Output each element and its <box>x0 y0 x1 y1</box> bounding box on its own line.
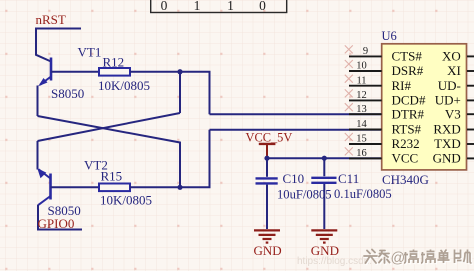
junction node VCC/C10 <box>264 156 269 161</box>
svg-text:1: 1 <box>194 0 201 13</box>
pin 2 XI (right) <box>447 63 474 78</box>
svg-text:13: 13 <box>356 104 367 115</box>
svg-text:U6: U6 <box>382 29 397 43</box>
junction node C11 <box>322 156 327 161</box>
svg-text:DTR#: DTR# <box>392 106 425 121</box>
svg-text:XI: XI <box>447 63 461 78</box>
svg-text:R12: R12 <box>103 55 125 70</box>
pin 15 R232 <box>345 133 420 151</box>
svg-text:GND: GND <box>433 151 461 166</box>
svg-text:10: 10 <box>356 61 367 72</box>
wire R15 output to corner <box>130 130 210 188</box>
pin 10 DSR# <box>345 60 424 78</box>
pin 11 RI# <box>345 75 412 93</box>
wire cross diagonal A (VT1 emitter to R15 node) <box>38 116 181 187</box>
svg-text:0: 0 <box>259 0 266 13</box>
wire VT2 emitter up <box>37 141 39 170</box>
VCC bar <box>259 143 276 145</box>
capacitor C10 <box>256 158 278 229</box>
ground symbol (C10) <box>254 230 280 242</box>
wire VT2 collector down <box>37 205 39 230</box>
wire nRST to VT1 collector <box>36 29 51 62</box>
svg-text:10K/0805: 10K/0805 <box>98 78 150 93</box>
wire GPIO0 stub <box>37 229 82 231</box>
pin 9 CTS# <box>345 45 423 63</box>
VT1 emitter arrowhead <box>38 78 47 86</box>
wire to pin13 DTR# <box>210 113 383 115</box>
pin 1 XO (right) <box>442 49 474 64</box>
pin 12 DCD# <box>345 89 426 107</box>
svg-text:V3: V3 <box>445 106 461 121</box>
resistor R12 <box>99 68 130 76</box>
svg-text:R232: R232 <box>392 136 420 151</box>
svg-text:15: 15 <box>356 134 367 145</box>
wire nRST stub <box>35 28 81 30</box>
wire VCC rail to pin16 <box>267 157 382 159</box>
wire cross diagonal B (VT2 emitter to R12 node) <box>38 113 181 141</box>
svg-text:10K/0805: 10K/0805 <box>100 193 152 208</box>
svg-text:C11: C11 <box>338 171 359 186</box>
svg-text:RTS#: RTS# <box>392 122 422 137</box>
op IC U6 CH340G body <box>382 44 467 170</box>
svg-text:0: 0 <box>161 0 168 13</box>
pin 7 TXD (right) <box>434 136 474 151</box>
svg-text:9: 9 <box>363 46 368 57</box>
pin 14 RTS# <box>349 119 422 137</box>
svg-text:CTS#: CTS# <box>392 49 423 64</box>
pin 6 RXD (right) <box>433 122 474 137</box>
VCC stem <box>266 144 268 158</box>
svg-text:@: @ <box>391 251 406 267</box>
svg-text:VCC_5V: VCC_5V <box>246 130 293 144</box>
svg-text:R15: R15 <box>101 169 123 184</box>
wire junction down to cross <box>179 72 181 113</box>
svg-text:UD+: UD+ <box>435 93 461 108</box>
svg-text:12: 12 <box>356 90 367 101</box>
pin 3 UD- (right) <box>438 78 474 93</box>
pin 8 GND (right) <box>433 151 474 166</box>
pin 4 UD+ (right) <box>435 93 474 108</box>
svg-text:16: 16 <box>356 148 367 159</box>
resistor R15 <box>99 184 130 192</box>
svg-text:UD-: UD- <box>438 78 461 93</box>
svg-text:1: 1 <box>227 0 234 13</box>
svg-text:VCC: VCC <box>392 151 419 166</box>
svg-text:XO: XO <box>442 49 461 64</box>
svg-text:TXD: TXD <box>434 136 461 151</box>
transistor VT1 <box>40 58 99 85</box>
svg-text:RXD: RXD <box>433 122 460 137</box>
pin 5 V3 (right) <box>445 106 474 121</box>
junction node on R15 line <box>177 185 182 190</box>
svg-text:C10: C10 <box>283 171 305 186</box>
watermark TouTiao handle (embossed) <box>364 250 473 268</box>
VT2 emitter arrowhead <box>37 168 46 178</box>
wire VT1 emitter down <box>37 86 39 117</box>
svg-text:14: 14 <box>356 119 367 130</box>
svg-text:DSR#: DSR# <box>392 63 424 78</box>
capacitor C11 <box>311 158 336 229</box>
svg-text:CH340G: CH340G <box>382 172 429 187</box>
wire R12 output to corner <box>130 72 210 114</box>
pin 16 VCC <box>345 147 418 165</box>
svg-text:S8050: S8050 <box>51 86 84 101</box>
svg-text:RI#: RI# <box>392 78 412 93</box>
truth table fragment (cropped at top) <box>151 0 287 13</box>
transistor VT2 <box>39 169 100 205</box>
svg-text:0.1uF/0805: 0.1uF/0805 <box>334 187 392 201</box>
ground symbol (C11) <box>311 230 337 242</box>
pin 13 DTR# <box>345 103 425 121</box>
svg-text:DCD#: DCD# <box>392 93 426 108</box>
svg-text:htips://blog.csdn.: htips://blog.csdn. <box>297 256 372 267</box>
svg-text:GND: GND <box>254 243 282 258</box>
junction node on R12 line <box>177 69 182 74</box>
wire to pin14 RTS# <box>210 129 383 131</box>
svg-text:nRST: nRST <box>36 12 66 27</box>
svg-text:VT1: VT1 <box>78 45 102 60</box>
svg-text:11: 11 <box>356 75 366 86</box>
